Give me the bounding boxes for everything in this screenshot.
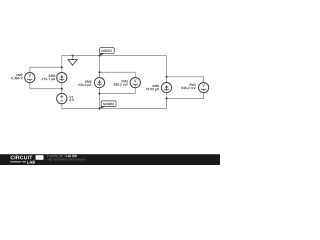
- node flag NODE2: [99, 101, 116, 109]
- wire left vertical branch: [61, 56, 63, 109]
- wire VM2 loop top: [30, 66, 62, 68]
- logo CIRCUIT: [11, 156, 33, 160]
- junction VM2 top: [61, 66, 63, 68]
- voltmeter VM3: [130, 78, 140, 88]
- wire VM3 vertical: [134, 72, 136, 93]
- junction AM4 bottom: [98, 93, 100, 95]
- logo square: [36, 155, 44, 160]
- wire VM4 vertical: [203, 77, 205, 99]
- wire AM4-VM3 loop bottom: [100, 93, 136, 95]
- logo underline: [10, 161, 26, 163]
- footer url: [47, 158, 85, 161]
- wire top rail: [62, 55, 167, 57]
- junction AM6 top: [165, 76, 167, 78]
- junction AM4 top: [98, 71, 100, 73]
- footer title: [47, 155, 64, 158]
- logo LAB: [27, 161, 35, 164]
- wire AM6-VM4 loop top: [167, 76, 204, 78]
- ammeter AM6: [161, 83, 171, 93]
- ammeter AM8: [57, 73, 67, 83]
- voltmeter VM4: [199, 83, 209, 93]
- label AM6: [146, 85, 159, 91]
- voltmeter VM2: [25, 73, 35, 83]
- ammeter AM4: [94, 78, 104, 88]
- label VM4: [182, 84, 196, 90]
- junction at ground tap: [72, 55, 74, 57]
- wire VM2 loop bottom: [30, 88, 62, 90]
- junction VM2 bottom: [61, 88, 63, 90]
- wire ground stub: [72, 56, 74, 60]
- node flag NODE1: [100, 48, 115, 56]
- wire VM2 loop left vertical: [29, 67, 31, 88]
- junction AM6 bottom: [165, 97, 167, 99]
- label AM8: [41, 75, 55, 81]
- junction node NODE2: [98, 108, 100, 110]
- wire middle vertical branch: [99, 56, 101, 109]
- junction node NODE1: [98, 55, 100, 57]
- wire right vertical branch: [166, 56, 168, 109]
- wire AM6-VM4 loop bottom: [167, 97, 204, 99]
- voltage source V1: [57, 93, 67, 103]
- label V1: [69, 96, 74, 101]
- wire AM4-VM3 loop top: [100, 71, 136, 73]
- footer bar: [0, 154, 220, 165]
- wire bottom rail: [62, 108, 167, 110]
- label AM4: [78, 80, 91, 86]
- label VM2: [10, 74, 22, 80]
- ground: [68, 60, 77, 66]
- label VM3: [114, 80, 128, 86]
